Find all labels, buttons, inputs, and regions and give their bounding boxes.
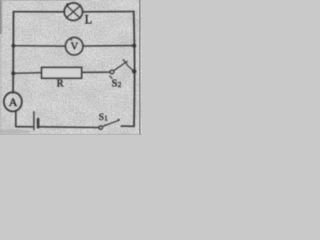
switch S1 pivot circle: [99, 126, 103, 130]
switch S1 lever: [102, 120, 119, 126]
ammeter A circle: [4, 92, 22, 111]
battery long plate: [33, 112, 35, 130]
ink speck on lamp: [66, 3, 69, 6]
resistor R box: [42, 67, 82, 78]
node: left R-branch junction: [11, 71, 15, 75]
left vertical wire: [12, 12, 14, 93]
wire left junction to resistor: [13, 72, 41, 75]
scan border bottom: [0, 134, 142, 135]
svg-text:1: 1: [104, 114, 108, 122]
node: right V-branch junction: [132, 44, 136, 48]
svg-text:2: 2: [118, 80, 122, 89]
svg-text:A: A: [9, 95, 18, 109]
right vertical wire: [133, 12, 136, 127]
battery short plate: [37, 119, 40, 127]
paper background: [0, 0, 142, 135]
switch S2 stub to right wire: [128, 66, 134, 71]
switch S1 lever tip dot: [118, 119, 120, 121]
wire resistor to switch S2: [82, 71, 111, 73]
ink speck above S1 lever: [105, 124, 106, 125]
wire voltmeter to right junction: [83, 45, 134, 47]
svg-text:V: V: [71, 42, 79, 53]
wire lamp to top-right corner: [83, 11, 134, 13]
svg-text:L: L: [85, 12, 93, 26]
bottom wire to battery: [16, 126, 34, 128]
voltmeter needle dot: [71, 39, 73, 41]
wire ammeter to bottom wire: [15, 111, 17, 127]
voltmeter V circle: [65, 37, 83, 55]
lamp cross line 1: [67, 6, 80, 18]
lamp L1 circle: [64, 3, 82, 21]
wire left junction to voltmeter: [13, 45, 65, 47]
scan border right: [139, 0, 141, 135]
wire top-left to lamp: [14, 11, 65, 13]
switch S2 pivot circle: [110, 70, 114, 74]
wire battery to switch S1: [38, 126, 99, 129]
node: right S2 junction: [132, 69, 136, 73]
wire S1 to bottom-right corner: [121, 125, 134, 127]
node: left V-branch junction: [12, 44, 16, 48]
switch S2 lever: [114, 61, 128, 70]
lamp cross line 2: [67, 5, 81, 17]
svg-text:R: R: [57, 79, 64, 90]
stray tick below S2 pivot: [110, 76, 112, 78]
switch S2 cross tick: [123, 60, 127, 65]
